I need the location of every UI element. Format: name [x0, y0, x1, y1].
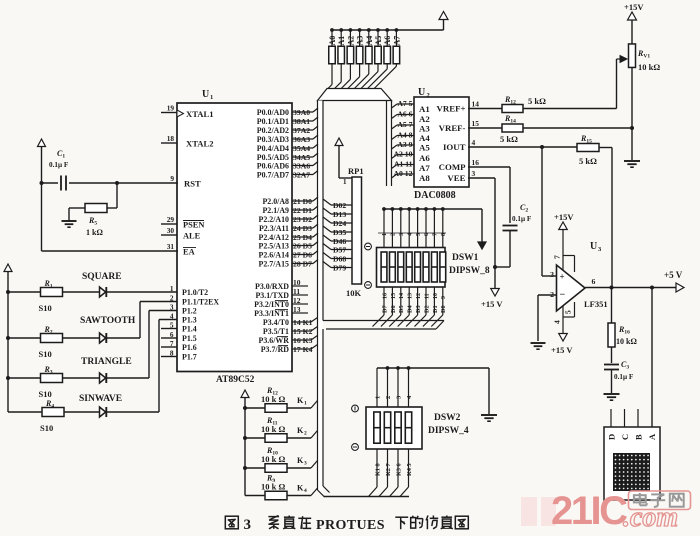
- diode TRIANGLE: [63, 377, 100, 379]
- svg-text:D5: D5: [398, 305, 405, 313]
- svg-text:A3: A3: [419, 124, 430, 134]
- junction: [395, 28, 399, 32]
- svg-text:16: 16: [382, 293, 388, 299]
- svg-text:11: 11: [424, 293, 430, 299]
- svg-text:A4 8: A4 8: [397, 131, 412, 140]
- svg-text:C1: C1: [57, 149, 65, 160]
- svg-text:P3.5/T1: P3.5/T1: [263, 327, 289, 336]
- capacitor C2: [503, 225, 518, 227]
- svg-text:A2: A2: [419, 114, 430, 124]
- bus band top: [318, 89, 392, 101]
- svg-text:D13: D13: [333, 210, 346, 219]
- DSW1 top pin wire: [400, 209, 402, 247]
- DSW2 top pin wire: [376, 368, 378, 407]
- P3 stubs 10-13: [292, 285, 308, 287]
- DSW1 wire to bus: [381, 315, 393, 327]
- svg-text:A5: A5: [374, 36, 383, 46]
- junction: [376, 28, 380, 32]
- svg-text:D3: D3: [415, 305, 422, 313]
- svg-text:A1: A1: [337, 36, 346, 46]
- RP1 input nets D02-D79: [323, 199, 331, 205]
- capacitor C1: [42, 182, 59, 184]
- svg-text:15: 15: [472, 119, 480, 128]
- DSW1 switch element: [432, 252, 438, 282]
- resistor RN A6: [384, 46, 391, 64]
- svg-text:P2.3/A11: P2.3/A11: [259, 224, 289, 233]
- DSW2 switch element: [395, 412, 401, 443]
- net A7 to U2: [392, 104, 398, 108]
- wire R16 to C3: [611, 347, 613, 363]
- svg-text:1: 1: [382, 233, 388, 236]
- svg-text:6: 6: [592, 277, 596, 286]
- DSW1 polarity circles: [365, 243, 372, 250]
- junctions input rail: [6, 290, 10, 294]
- net A4 to U2: [392, 136, 398, 140]
- svg-text:SQUARE: SQUARE: [82, 272, 122, 282]
- resistor R12: [245, 407, 265, 409]
- svg-text:14: 14: [399, 293, 405, 299]
- svg-text:9: 9: [170, 174, 174, 183]
- resistor R10: [245, 467, 265, 469]
- svg-text:D6: D6: [390, 305, 397, 313]
- connector body: [604, 427, 660, 500]
- DSW1 wire to bus: [398, 315, 410, 327]
- DSW1 top rail: [384, 208, 482, 210]
- svg-text:19: 19: [167, 104, 175, 113]
- svg-text:P0.1/AD1: P0.1/AD1: [257, 117, 289, 126]
- svg-text:8: 8: [170, 349, 174, 358]
- svg-text:A: A: [647, 433, 657, 440]
- svg-text:29: 29: [167, 215, 175, 224]
- DSW1 top pin wire: [417, 209, 419, 247]
- DSW1 pin number row: [378, 232, 446, 234]
- svg-text:P3.1/TXD: P3.1/TXD: [255, 291, 289, 300]
- svg-text:ALE: ALE: [183, 232, 201, 241]
- svg-text:A5: A5: [419, 143, 430, 153]
- svg-text:3: 3: [304, 461, 307, 467]
- +5V output arrow: [676, 283, 684, 292]
- svg-text:+15 V: +15 V: [551, 345, 573, 355]
- wire TRIANGLE to U1: [107, 377, 149, 379]
- svg-text:R16: R16: [618, 325, 630, 336]
- wire C1 to EA pin31: [41, 183, 43, 251]
- svg-text:7: 7: [170, 339, 174, 348]
- power arrow K rail: [241, 390, 249, 398]
- switch contact K3: [287, 467, 311, 469]
- DSW1 top pin wire: [408, 209, 410, 247]
- svg-text:10 k Ω: 10 k Ω: [261, 482, 285, 492]
- DSW2 wire to bus: [400, 487, 409, 497]
- svg-text:4: 4: [304, 488, 307, 494]
- watermark faint block: [521, 497, 537, 526]
- connector dot matrix: [613, 453, 650, 491]
- resistor RN A2: [347, 46, 354, 64]
- DSW1 switch element: [381, 252, 387, 282]
- svg-text:9: 9: [441, 296, 447, 299]
- svg-text:P2.1/A9: P2.1/A9: [262, 206, 289, 215]
- svg-text:10: 10: [433, 293, 439, 299]
- DSW1 switch element: [415, 252, 421, 282]
- svg-text:D1: D1: [432, 305, 439, 313]
- svg-text:2: 2: [304, 431, 307, 437]
- DSW1 wire to bus: [389, 315, 401, 327]
- diode SAWTOOTH: [63, 337, 100, 339]
- pullup rail: [332, 29, 444, 31]
- svg-text:3: 3: [395, 395, 402, 399]
- svg-text:1: 1: [374, 396, 381, 399]
- svg-text:33A6: 33A6: [293, 162, 310, 171]
- net D0 stub: [292, 200, 313, 202]
- watermark dianziwang frame: [629, 491, 691, 510]
- svg-text:VREF+: VREF+: [437, 104, 466, 114]
- svg-text:A7: A7: [392, 36, 401, 46]
- svg-text:A3 9: A3 9: [397, 140, 412, 149]
- svg-text:S10: S10: [39, 303, 52, 313]
- U1 pin 19 stub: [161, 112, 177, 114]
- power arrow U3 pin4 +15V: [559, 334, 568, 342]
- net D6 stub: [292, 254, 313, 256]
- svg-text:P1.1/T2EX: P1.1/T2EX: [182, 297, 219, 306]
- svg-text:XTAL1: XTAL1: [186, 109, 214, 119]
- junction: [358, 28, 362, 32]
- svg-text:10 k Ω: 10 k Ω: [261, 394, 285, 404]
- svg-text:17 K4: 17 K4: [293, 345, 313, 354]
- wire U2 pin14: [468, 108, 502, 110]
- DSW1 switch element: [390, 252, 396, 282]
- svg-text:27 D6: 27 D6: [293, 251, 312, 260]
- svg-text:37A2: 37A2: [293, 126, 310, 135]
- DSW2 wire to bus: [390, 487, 399, 497]
- svg-text:4: 4: [472, 138, 476, 147]
- ground R5: [62, 220, 77, 222]
- svg-text:S10: S10: [40, 423, 53, 433]
- wire Rx1 top to +15V: [631, 21, 633, 45]
- svg-text:DAC0808: DAC0808: [414, 190, 456, 201]
- P3 K nets to bus: [292, 321, 311, 323]
- svg-text:32A7: 32A7: [293, 171, 310, 180]
- svg-text:18: 18: [167, 134, 175, 143]
- svg-text:PROTUES: PROTUES: [316, 518, 385, 533]
- switch contact K1: [287, 407, 311, 409]
- svg-text:0.1μ F: 0.1μ F: [49, 161, 69, 169]
- net D3 stub: [292, 227, 313, 229]
- wire IOUT: [468, 146, 577, 148]
- caption figure 3 text: [225, 516, 238, 529]
- wire RST to U1 pin9: [117, 182, 178, 184]
- wire U2 pin15: [468, 127, 502, 129]
- svg-text:A4: A4: [365, 36, 374, 46]
- svg-text:TRIANGLE: TRIANGLE: [81, 357, 132, 367]
- DSW1 wire to bus: [423, 315, 435, 327]
- junction: [339, 28, 343, 32]
- svg-text:5 kΩ: 5 kΩ: [579, 156, 597, 166]
- diode SQUARE: [63, 291, 100, 293]
- watermark dianziwang text: [639, 493, 641, 505]
- svg-text:14 K1: 14 K1: [293, 318, 313, 327]
- svg-text:P0.4/AD4: P0.4/AD4: [257, 144, 289, 153]
- svg-text:K: K: [297, 426, 304, 435]
- svg-text:10K: 10K: [346, 288, 362, 298]
- potentiometer Rx1: [629, 44, 636, 67]
- svg-text:R5: R5: [88, 216, 97, 227]
- DSW1 wire to bus: [406, 315, 418, 327]
- diode SINWAVE: [64, 411, 100, 413]
- svg-text:D4: D4: [407, 305, 414, 313]
- svg-text:+: +: [560, 272, 565, 282]
- svg-text:COMP: COMP: [439, 162, 466, 172]
- svg-text:−: −: [560, 290, 566, 301]
- svg-text:1: 1: [304, 401, 307, 407]
- wire R14 to Rx1 node: [523, 127, 632, 129]
- power arrow -15V VEE: [491, 289, 500, 297]
- DSW1 wire to bus: [373, 315, 385, 327]
- resistor RN A1: [338, 46, 345, 64]
- DSW1 top pin wire: [425, 209, 427, 247]
- svg-text:S10: S10: [39, 389, 52, 399]
- svg-text:DSW1: DSW1: [452, 253, 479, 263]
- bus trunk: [318, 101, 324, 491]
- svg-text:LF351: LF351: [584, 299, 608, 309]
- svg-text:A2: A2: [346, 36, 355, 46]
- op-amp U3 triangle: [557, 265, 586, 311]
- svg-text:R14: R14: [504, 114, 516, 125]
- svg-text:U: U: [590, 241, 597, 252]
- DSW1 top pin wire: [391, 209, 393, 247]
- svg-text:35A4: 35A4: [293, 144, 310, 153]
- svg-text:P2.2/A10: P2.2/A10: [259, 215, 290, 224]
- junction: [349, 28, 353, 32]
- svg-text:VREF-: VREF-: [439, 123, 466, 133]
- svg-text:21IC: 21IC: [551, 489, 627, 533]
- arrow DSW1 rail: [481, 209, 483, 242]
- svg-text:P1.2: P1.2: [182, 306, 197, 315]
- svg-text:21 D0: 21 D0: [293, 197, 312, 206]
- IC U2 DAC0808 body: [414, 97, 469, 187]
- svg-text:2: 2: [427, 92, 430, 99]
- power arrow RST rail: [38, 139, 46, 147]
- net A3 to U2: [392, 145, 398, 149]
- net D4 stub: [292, 236, 313, 238]
- svg-text:P3.3/INT1: P3.3/INT1: [254, 309, 289, 318]
- net D2 stub: [292, 218, 313, 220]
- ground Rx1: [624, 160, 640, 162]
- resistor R3 (TRIANGLE): [8, 377, 41, 379]
- svg-text:12: 12: [293, 296, 301, 305]
- svg-text:P1.7: P1.7: [182, 352, 197, 361]
- svg-text:A0: A0: [328, 36, 337, 46]
- svg-text:10: 10: [293, 278, 301, 287]
- svg-text:1 kΩ: 1 kΩ: [86, 228, 103, 237]
- svg-text:.com: .com: [623, 502, 678, 533]
- dip switch DSW1 body: [377, 248, 446, 288]
- DSW2 top pin wire: [387, 368, 389, 407]
- svg-text:23 D2: 23 D2: [293, 215, 312, 224]
- net A5 stub: [292, 156, 313, 158]
- svg-text:5 kΩ: 5 kΩ: [500, 134, 518, 144]
- net A1 to U2: [392, 165, 398, 169]
- svg-text:P1.6: P1.6: [182, 343, 197, 352]
- IC U1 AT89C52 body: [177, 103, 292, 372]
- svg-text:+15V: +15V: [624, 2, 644, 12]
- DSW2 top pin wire: [397, 368, 399, 407]
- svg-text:K4 5: K4 5: [406, 463, 413, 476]
- svg-text:P3.0/RXD: P3.0/RXD: [255, 282, 289, 291]
- svg-text:+5 V: +5 V: [664, 270, 683, 280]
- svg-text:4: 4: [406, 395, 413, 399]
- wire SQUARE to U1: [107, 291, 177, 293]
- ground DSW2: [481, 414, 497, 416]
- svg-text:P3.4/T0: P3.4/T0: [263, 318, 289, 327]
- wire IOUT to op-amp +input: [541, 147, 543, 276]
- svg-text:DIPSW_8: DIPSW_8: [449, 266, 490, 276]
- svg-text:6: 6: [424, 233, 430, 236]
- svg-text:3: 3: [244, 517, 252, 533]
- DSW1 wire to bus: [415, 315, 427, 327]
- svg-text:38A1: 38A1: [293, 117, 310, 126]
- wire VEE down: [468, 177, 495, 179]
- U1 pin 29 stub: [161, 223, 177, 225]
- svg-text:39A0: 39A0: [293, 108, 310, 117]
- svg-text:P2.0/A8: P2.0/A8: [262, 197, 289, 206]
- svg-text:PSEN: PSEN: [183, 221, 204, 230]
- resistor R14: [502, 124, 523, 132]
- power arrow input rail: [4, 264, 12, 272]
- svg-text:P0.0/AD0: P0.0/AD0: [257, 108, 289, 117]
- svg-text:3: 3: [550, 270, 554, 279]
- net A4 stub: [292, 147, 313, 149]
- svg-text:S10: S10: [39, 349, 52, 359]
- bus branch to DSW1: [323, 320, 444, 322]
- DSW1 bottom pins: [383, 287, 385, 315]
- svg-text:D: D: [606, 434, 616, 440]
- svg-text:4: 4: [407, 233, 413, 236]
- DSW2 top rail: [377, 367, 489, 369]
- DSW2 polarity circles: [352, 405, 359, 412]
- svg-text:D0: D0: [440, 305, 447, 313]
- connector stub wires D C B: [610, 409, 612, 427]
- svg-text:0.1μ F: 0.1μ F: [614, 373, 634, 381]
- DSW1 top pin wire: [433, 209, 435, 247]
- svg-text:22 D1: 22 D1: [293, 206, 312, 215]
- svg-text:5 kΩ: 5 kΩ: [528, 96, 546, 106]
- resistor R2 (SAWTOOTH): [8, 337, 41, 339]
- U3 output pin6: [585, 287, 676, 289]
- wire output to R16: [611, 288, 613, 324]
- net A6 to U2: [392, 115, 398, 119]
- svg-text:P0.2/AD2: P0.2/AD2: [257, 126, 289, 135]
- svg-text:D2: D2: [423, 305, 430, 313]
- DSW2 wire to bus: [379, 487, 388, 497]
- resistor RN A3: [356, 46, 363, 64]
- svg-text:A7 5: A7 5: [397, 99, 412, 108]
- net D7 stub: [292, 263, 313, 265]
- power arrow pullup rail: [443, 20, 445, 30]
- svg-text:P1.3: P1.3: [182, 315, 197, 324]
- svg-text:13: 13: [408, 293, 414, 299]
- net A1 stub: [292, 120, 313, 122]
- svg-text:16 K3: 16 K3: [293, 336, 313, 345]
- DSW2 top pin wire: [408, 368, 410, 407]
- U1 pin 18 stub: [161, 142, 177, 144]
- svg-text:VEE: VEE: [447, 173, 465, 183]
- svg-text:D02: D02: [333, 201, 346, 210]
- net A2 to U2: [392, 155, 398, 159]
- svg-text:30: 30: [167, 226, 175, 235]
- svg-text:C3: C3: [621, 360, 629, 371]
- svg-text:31: 31: [167, 242, 175, 251]
- svg-text:10 kΩ: 10 kΩ: [616, 337, 637, 346]
- svg-text:A4: A4: [419, 133, 430, 143]
- svg-text:U: U: [418, 87, 425, 98]
- svg-text:13: 13: [293, 305, 301, 314]
- svg-text:5: 5: [416, 233, 422, 236]
- resistor R5: [116, 183, 118, 208]
- DSW1 switch element: [440, 252, 446, 282]
- junction: [367, 28, 371, 32]
- svg-text:2: 2: [391, 233, 397, 236]
- ground U3 pin2: [531, 342, 546, 344]
- svg-text:P3.2/INT0: P3.2/INT0: [254, 300, 289, 309]
- svg-text:EA: EA: [183, 248, 195, 257]
- svg-text:4: 4: [553, 320, 562, 324]
- svg-text:SAWTOOTH: SAWTOOTH: [80, 316, 136, 326]
- DSW2 wire to bus: [369, 487, 378, 497]
- svg-text:K1 8: K1 8: [375, 463, 382, 476]
- svg-text:K3 6: K3 6: [396, 463, 403, 476]
- DSW1 switch element: [398, 252, 404, 282]
- wire SINWAVE to U1: [107, 411, 159, 413]
- net A3 stub: [292, 138, 313, 140]
- svg-text:A6: A6: [383, 36, 392, 46]
- DSW1 switch element: [406, 252, 412, 282]
- DSW2 switch element: [405, 412, 411, 443]
- svg-text:D57: D57: [333, 246, 346, 255]
- net A5 to U2: [392, 125, 398, 129]
- wire SAWTOOTH to U1: [107, 337, 140, 339]
- svg-text:P0.7/AD7: P0.7/AD7: [257, 170, 289, 179]
- bus bottom flare to DSW2: [318, 490, 325, 497]
- resistor RN A4: [366, 46, 373, 64]
- resistor RN A0: [329, 46, 336, 64]
- resistor R12: [502, 105, 523, 113]
- svg-text:14: 14: [472, 100, 480, 109]
- net A0 to U2: [392, 174, 398, 178]
- wire Rx1 bottom to ground: [631, 68, 633, 161]
- svg-text:3: 3: [472, 169, 476, 178]
- resistor R15: [577, 144, 599, 152]
- resistor R1 (SQUARE): [8, 291, 41, 293]
- svg-text:A5 7: A5 7: [397, 120, 412, 129]
- svg-text:A2 10: A2 10: [393, 150, 412, 159]
- U3 pin7 V+: [562, 230, 564, 271]
- svg-text:A1 11: A1 11: [394, 160, 413, 169]
- resistor R16: [608, 323, 615, 347]
- svg-text:C2: C2: [520, 203, 528, 214]
- resistor R4 (SINWAVE): [8, 411, 42, 413]
- wire COMP to C2: [468, 166, 510, 168]
- wire C2 to VEE net: [509, 231, 511, 268]
- svg-text:RV1: RV1: [637, 49, 650, 60]
- resistor R11: [245, 437, 265, 439]
- junction: [330, 28, 334, 32]
- svg-text:A6 6: A6 6: [397, 110, 412, 119]
- svg-text:P0.6/AD6: P0.6/AD6: [257, 161, 289, 170]
- svg-text:3: 3: [399, 233, 405, 236]
- svg-text:A0 12: A0 12: [393, 169, 412, 178]
- svg-text:A6: A6: [419, 153, 430, 163]
- svg-text:1: 1: [343, 178, 347, 186]
- svg-text:K: K: [297, 396, 304, 405]
